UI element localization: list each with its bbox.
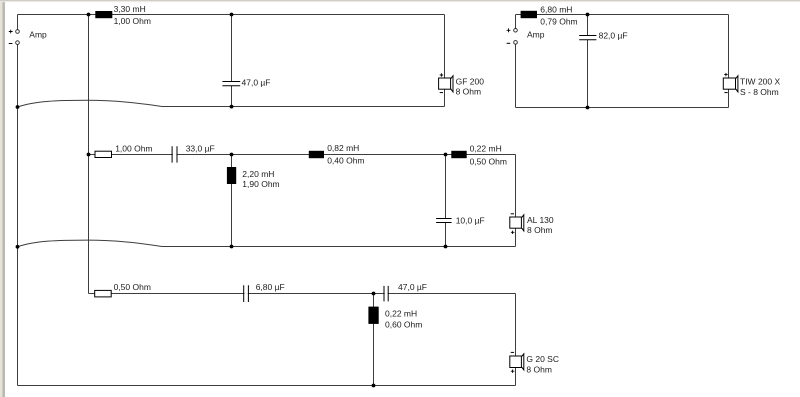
node: bottom rail / 0.22mH junction xyxy=(372,384,376,388)
node: bottom return / 47uF branch junction xyxy=(230,105,234,109)
wire: mid right vertical down to speaker and bottom xyxy=(515,155,517,247)
wire: amp1 plus terminal up to top rail xyxy=(17,15,19,30)
amp 1 plus sign xyxy=(9,30,13,34)
inductor L1 3.30mH body xyxy=(95,11,112,18)
svg-text:S - 8 Ohm: S - 8 Ohm xyxy=(740,87,779,97)
amp 1 plus terminal xyxy=(16,30,20,34)
svg-text:47,0 µF: 47,0 µF xyxy=(398,282,427,292)
node: mid bottom / 10uF junction xyxy=(444,245,448,249)
inductor 0.22mH body xyxy=(451,151,466,158)
speaker AL 130 cone xyxy=(522,215,524,231)
svg-text:33,0 µF: 33,0 µF xyxy=(186,143,215,153)
wire: 2.2mH shunt branch xyxy=(231,155,233,247)
capacitor 10uF plates xyxy=(436,219,452,223)
capacitor 47uF (tweeter) gap xyxy=(385,292,388,295)
svg-text:82,0 µF: 82,0 µF xyxy=(599,30,628,40)
svg-text:GF 200: GF 200 xyxy=(456,77,485,87)
svg-text:10,0 µF: 10,0 µF xyxy=(456,215,485,225)
node: top rail / 82uF junction xyxy=(586,13,590,17)
capacitor 82uF plates xyxy=(579,36,596,40)
amp 1 minus sign xyxy=(9,43,13,45)
wire: top rail xyxy=(18,14,445,16)
capacitor C1 47uF plates xyxy=(222,82,240,86)
node: top rail / 47uF branch junction xyxy=(230,13,234,17)
node: mid bottom / 2.2mH junction xyxy=(230,245,234,249)
svg-text:6,80 mH: 6,80 mH xyxy=(540,5,572,15)
resistor R1 1.00 Ohm body xyxy=(95,151,112,157)
node: mid bottom left xyxy=(16,245,20,249)
wire: right vertical down to speaker and bottom xyxy=(515,294,517,386)
wire: amp2 minus vertical xyxy=(515,44,517,107)
capacitor 33uF gap xyxy=(173,153,177,156)
svg-text:TIW 200 X: TIW 200 X xyxy=(740,77,780,87)
speaker AL 130 plus mark xyxy=(511,231,515,234)
wire: amp1 minus terminal long left vertical down xyxy=(17,44,19,385)
svg-text:1,90 Ohm: 1,90 Ohm xyxy=(242,179,279,189)
svg-text:0,50 Ohm: 0,50 Ohm xyxy=(470,156,507,166)
wire: top rail (circuit 4) xyxy=(516,14,729,16)
capacitor 47uF (tweeter) plates xyxy=(384,286,388,302)
node: top rail / x=88 tap junction xyxy=(87,13,91,17)
speaker G 20 SC plus mark xyxy=(511,370,515,373)
svg-text:8 Ohm: 8 Ohm xyxy=(456,87,482,97)
amp 2 minus terminal xyxy=(514,41,518,45)
speaker GF 200 magnet xyxy=(439,78,451,89)
inductor 6.80mH body xyxy=(521,11,537,18)
node: tweeter rail / 0.22mH junction xyxy=(372,292,376,296)
resistor 0.50 Ohm body xyxy=(95,290,112,297)
svg-text:0,50 Ohm: 0,50 Ohm xyxy=(114,282,151,292)
wire: tweeter rail xyxy=(89,293,516,295)
wire: circuit1 bottom return with crossover hop xyxy=(18,100,445,107)
amp 2 plus sign xyxy=(507,28,511,32)
speaker AL 130 minus mark xyxy=(511,213,514,215)
svg-text:AL 130: AL 130 xyxy=(527,215,554,225)
wire: bottom rail (circuit 4) xyxy=(516,107,729,109)
svg-text:0,60 Ohm: 0,60 Ohm xyxy=(385,320,422,330)
window top border xyxy=(0,0,800,1)
speaker G 20 SC minus mark xyxy=(511,351,514,353)
wire: 0.22mH shunt branch xyxy=(373,294,375,386)
wire: 82uF shunt lower xyxy=(587,40,589,108)
svg-text:0,79 Ohm: 0,79 Ohm xyxy=(540,17,577,27)
speaker TIW 200 X magnet xyxy=(723,78,735,89)
inductor 0.82mH body xyxy=(309,151,324,158)
wire: 47uF shunt branch lower xyxy=(231,86,233,107)
svg-text:8 Ohm: 8 Ohm xyxy=(526,365,552,375)
node: mid rail input junction xyxy=(87,153,91,157)
capacitor 33uF plates xyxy=(172,146,177,162)
wire: 10uF shunt branch lower xyxy=(445,223,447,247)
svg-text:6,80 µF: 6,80 µF xyxy=(256,282,285,292)
svg-text:3,30 mH: 3,30 mH xyxy=(114,4,146,14)
svg-text:1,00 Ohm: 1,00 Ohm xyxy=(115,143,152,153)
speaker AL 130 magnet xyxy=(510,217,522,228)
wire: 47uF shunt branch upper xyxy=(231,15,233,82)
svg-text:0,22 mH: 0,22 mH xyxy=(470,143,502,153)
svg-text:1,00 Ohm: 1,00 Ohm xyxy=(114,16,151,26)
svg-text:0,22 mH: 0,22 mH xyxy=(385,308,417,318)
speaker G 20 SC magnet xyxy=(510,356,522,368)
wire: 82uF shunt upper xyxy=(587,15,589,36)
wire: vertical tap rail at x=88 xyxy=(88,15,90,294)
speaker GF 200 minus mark xyxy=(440,92,443,94)
svg-text:8 Ohm: 8 Ohm xyxy=(527,225,553,235)
speaker TIW 200 X minus mark xyxy=(724,92,727,94)
svg-text:0,40 Ohm: 0,40 Ohm xyxy=(327,155,364,165)
wire: mid rail xyxy=(89,154,516,156)
svg-text:Amp: Amp xyxy=(29,30,47,40)
wire: amp2 plus terminal up xyxy=(515,15,517,29)
wire: right vertical down to speaker and bottom xyxy=(444,15,446,107)
speaker TIW 200 X plus mark xyxy=(724,73,728,76)
capacitor 6.8uF plates xyxy=(244,285,249,302)
speaker TIW 200 X cone xyxy=(736,76,738,92)
wire: bottom rail xyxy=(18,385,516,387)
node: mid rail / 10uF junction xyxy=(444,153,448,157)
speaker G 20 SC cone xyxy=(522,354,524,370)
svg-text:G 20 SC: G 20 SC xyxy=(526,354,559,364)
node: bottom rail / 82uF junction xyxy=(586,106,590,110)
node: bottom return at amp minus xyxy=(16,105,20,109)
capacitor 6.8uF gap xyxy=(244,292,247,295)
speaker GF 200 plus mark xyxy=(440,73,444,76)
amp 2 plus terminal xyxy=(514,29,518,33)
amp 2 minus sign xyxy=(507,42,511,44)
wire: 10uF shunt branch upper xyxy=(445,155,447,219)
amp 1 minus terminal xyxy=(16,41,20,45)
wire: right vertical to speaker and bottom xyxy=(728,15,730,108)
inductor 2.20mH body xyxy=(227,167,236,184)
svg-text:47,0 µF: 47,0 µF xyxy=(242,77,271,87)
wire: mid bottom return with crossover hop xyxy=(18,240,516,247)
window left border xyxy=(0,0,2,397)
node: mid rail / 2.2mH junction xyxy=(230,153,234,157)
svg-text:0,82 mH: 0,82 mH xyxy=(327,143,359,153)
svg-text:2,20 mH: 2,20 mH xyxy=(242,169,274,179)
inductor 0.22mH (tweeter) body xyxy=(368,307,378,324)
svg-text:Amp: Amp xyxy=(527,30,545,40)
speaker GF 200 cone xyxy=(451,76,453,92)
